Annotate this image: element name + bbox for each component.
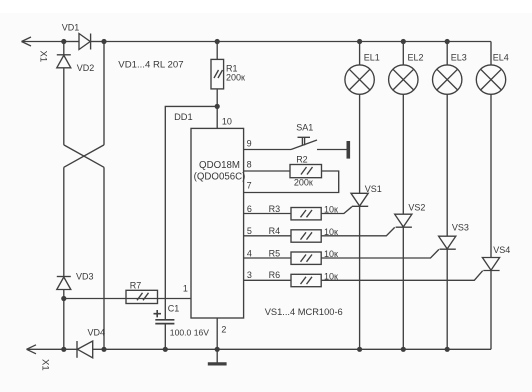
svg-text:6: 6 [247, 204, 252, 214]
wire node B down to crossing [103, 42, 105, 145]
wire node A down to VD2 [63, 42, 65, 55]
IC DD1 box [191, 128, 244, 318]
wire pin 8 [244, 170, 290, 172]
resistor R2 [290, 165, 322, 178]
svg-text:EL4: EL4 [493, 53, 509, 63]
svg-text:QDO18M: QDO18M [199, 160, 240, 171]
svg-text:2: 2 [221, 325, 226, 335]
svg-text:EL3: EL3 [451, 53, 467, 63]
svg-text:10: 10 [222, 117, 232, 127]
svg-text:VS4: VS4 [493, 245, 510, 255]
wire EL1 to VS1 [359, 94, 361, 193]
svg-text:VD2: VD2 [77, 63, 95, 73]
thyristor VS2 [395, 214, 412, 227]
wire pin 3 [244, 279, 291, 281]
wire R2 to loop [244, 171, 339, 193]
resistor R1 [211, 59, 224, 89]
svg-text:4: 4 [247, 248, 252, 258]
switch SA1 lever [291, 140, 317, 150]
junction dot EL2 top [401, 39, 406, 44]
wire crossing to VD3 [63, 167, 65, 276]
lamp EL2 [389, 65, 418, 94]
lamp EL1 [345, 65, 374, 94]
diode VD1 [79, 34, 91, 50]
wire VD2 anode down to crossing [63, 68, 65, 145]
wire top rail R1 node to lamps [217, 41, 491, 43]
svg-text:R4: R4 [269, 226, 281, 236]
wire bottom rail node D to VD4 [64, 348, 77, 350]
thyristor VS1 [351, 193, 368, 206]
svg-text:EL1: EL1 [364, 53, 380, 63]
junction dot VS1 bottom [357, 347, 362, 352]
wire crossing X left-to-right [64, 145, 104, 167]
svg-text:VS1: VS1 [365, 184, 382, 194]
wire VDD node to C1 branch [165, 106, 217, 319]
junction dot pin 2 on bottom rail [215, 347, 220, 352]
diode VD2 [57, 55, 71, 68]
svg-text:(QDO056C): (QDO056C) [194, 172, 246, 183]
junction dot VS3 bottom [445, 347, 450, 352]
wire VS2 cathode to bottom rail [402, 227, 404, 349]
diode VD4 [77, 341, 93, 358]
wire EL2 to VS2 [402, 94, 404, 214]
svg-text:VD4: VD4 [88, 328, 106, 338]
svg-text:VS3: VS3 [452, 223, 469, 233]
wire EL2 top [402, 42, 404, 65]
capacitor C1 [155, 320, 174, 324]
wire R6 to VS4 gate [321, 271, 483, 281]
wire VS1 cathode to bottom rail [359, 206, 361, 349]
svg-text:8: 8 [247, 159, 252, 169]
wire VS4 cathode to bottom rail [490, 271, 492, 350]
wire pin 5 [244, 235, 291, 237]
wire EL1 top [359, 42, 361, 65]
svg-text:VD1...4 RL 207: VD1...4 RL 207 [118, 59, 183, 70]
svg-text:VS2: VS2 [408, 202, 425, 212]
wire node C down to bottom rail [63, 299, 65, 350]
wire EL4 to VS4 [490, 94, 492, 257]
wire pin 10 [216, 106, 218, 128]
wire pin 1 [64, 298, 191, 300]
VDD node junction dot [215, 104, 220, 109]
svg-text:EL2: EL2 [408, 53, 424, 63]
svg-text:200к: 200к [226, 72, 245, 82]
wire pin 4 [244, 257, 291, 259]
junction dot R1 top [215, 39, 220, 44]
svg-text:3: 3 [247, 270, 252, 280]
wire VS3 cathode to bottom rail [446, 249, 448, 349]
wire top rail node B to R1 node [104, 41, 217, 43]
wire bottom rail node E to EL4 wire [104, 348, 491, 350]
svg-text:C1: C1 [168, 303, 180, 313]
diode VD3 [57, 277, 71, 290]
junction dot C1 bottom [163, 347, 168, 352]
touch plate bar [347, 141, 351, 159]
wire R1 to VDD node [216, 89, 218, 107]
junction dot VS2 bottom [401, 347, 406, 352]
svg-text:VD3: VD3 [76, 272, 94, 282]
node E junction dot [101, 347, 106, 352]
svg-text:9: 9 [247, 138, 252, 148]
wire EL3 top [446, 42, 448, 65]
junction dot EL1 top [357, 39, 362, 44]
svg-text:SA1: SA1 [296, 122, 313, 132]
ground [208, 362, 227, 365]
node C junction dot [61, 296, 66, 301]
svg-text:R5: R5 [269, 248, 281, 258]
svg-text:DD1: DD1 [174, 112, 193, 122]
resistor R5 [291, 252, 321, 264]
node D junction dot bottom-left [61, 347, 66, 352]
thyristor VS3 [439, 236, 456, 249]
svg-text:200к: 200к [294, 178, 313, 188]
svg-text:VD1: VD1 [62, 22, 80, 32]
switch SA1 actuator [298, 137, 311, 145]
wire R3 to VS1 gate [321, 207, 352, 214]
wire VD1 cathode to node B [91, 41, 104, 43]
resistor R4 [291, 230, 321, 242]
wire VD4 to node E [93, 348, 104, 350]
svg-text:1: 1 [183, 284, 188, 294]
wire C1 to bottom rail [164, 324, 166, 350]
wire top rail to R1 [216, 42, 218, 60]
wire R4 to VS2 gate [321, 227, 395, 235]
svg-text:5: 5 [247, 226, 252, 236]
wire pin 6 [244, 213, 291, 215]
svg-text:R2: R2 [296, 155, 308, 165]
svg-text:7: 7 [247, 181, 252, 191]
wire EL4 top [490, 42, 492, 65]
wire EL3 to VS3 [446, 94, 448, 236]
wire SA1 to touch plate [317, 149, 347, 151]
svg-text:R7: R7 [130, 280, 142, 290]
wire crossing down right branch [103, 167, 105, 349]
svg-text:R6: R6 [269, 270, 281, 280]
wire VD3 to node C [63, 290, 65, 299]
svg-text:X1: X1 [40, 359, 51, 371]
resistor R6 [291, 274, 321, 286]
terminal X1 top arrow [22, 37, 64, 46]
lamp EL4 [476, 65, 505, 94]
thyristor VS4 [482, 258, 499, 271]
junction dot EL3 top [445, 39, 450, 44]
lamp EL3 [433, 65, 462, 94]
resistor R3 [291, 208, 321, 220]
node B junction dot [101, 39, 106, 44]
node A junction dot [61, 39, 66, 44]
wire pin 2 [216, 319, 218, 364]
terminal X1 bottom arrow [27, 345, 64, 354]
wire R5 to VS3 gate [321, 249, 439, 258]
wire top rail: node A to VD1 [64, 41, 79, 43]
svg-text:X1: X1 [38, 51, 49, 63]
capacitor C1 plus sign [154, 310, 162, 317]
svg-text:VS1...4 MCR100-6: VS1...4 MCR100-6 [265, 307, 343, 317]
svg-text:R3: R3 [269, 204, 281, 214]
wire pin 9 [244, 149, 291, 151]
resistor R7 [126, 290, 158, 303]
wire crossing X right-to-left [64, 145, 104, 167]
svg-text:100.0 16V: 100.0 16V [170, 328, 209, 338]
